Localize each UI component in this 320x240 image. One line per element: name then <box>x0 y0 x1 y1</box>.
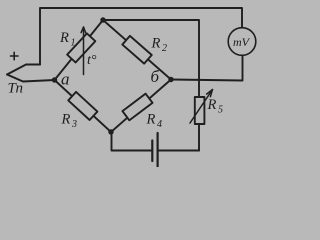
svg-text:3: 3 <box>71 119 77 130</box>
millivoltmeter mV <box>228 28 256 56</box>
svg-text:a: a <box>61 70 70 89</box>
svg-text:mV: mV <box>233 35 251 49</box>
thermocouple Tp <box>7 65 55 82</box>
label R3 <box>61 112 78 131</box>
resistor R1 <box>67 33 95 62</box>
wire meter bottom to node b <box>171 56 243 81</box>
svg-text:R: R <box>146 112 156 128</box>
svg-text:б: б <box>151 67 160 86</box>
node bottom <box>108 129 113 134</box>
label R1 <box>59 30 76 49</box>
plus sign <box>11 52 19 59</box>
adjustment arrow through R5 <box>190 90 213 124</box>
node top <box>100 17 105 22</box>
battery <box>152 133 157 167</box>
label R2 <box>151 36 168 55</box>
svg-text:1: 1 <box>71 38 76 49</box>
svg-text:R: R <box>61 112 71 128</box>
wire arm a to top node <box>55 20 104 80</box>
svg-text:5: 5 <box>218 105 223 116</box>
node b <box>168 77 173 82</box>
label R5 <box>207 97 224 116</box>
label R4 <box>146 112 163 131</box>
wire bottom battery left to bottom node <box>112 132 153 151</box>
wire arm a to bottom node <box>55 80 112 132</box>
wire top node to R5 branch <box>103 20 199 151</box>
node a <box>52 77 57 82</box>
wire arm top node to node b <box>103 20 171 80</box>
svg-text:t°: t° <box>87 53 97 68</box>
resistor R4 <box>122 94 152 121</box>
svg-text:R: R <box>59 30 69 46</box>
resistor R5 <box>195 97 205 124</box>
wire bottom battery right <box>158 150 199 152</box>
resistor R3 <box>68 92 97 120</box>
resistor R2 <box>122 36 151 64</box>
svg-text:4: 4 <box>157 119 162 130</box>
temperature arrow through R1 <box>81 27 86 75</box>
svg-text:2: 2 <box>162 43 167 54</box>
svg-text:R: R <box>151 36 161 52</box>
svg-text:Тп: Тп <box>8 81 23 97</box>
svg-text:R: R <box>207 97 217 113</box>
wire top loop from thermocouple plus up and across to meter <box>40 8 242 65</box>
wire arm bottom node to node b <box>111 80 171 133</box>
